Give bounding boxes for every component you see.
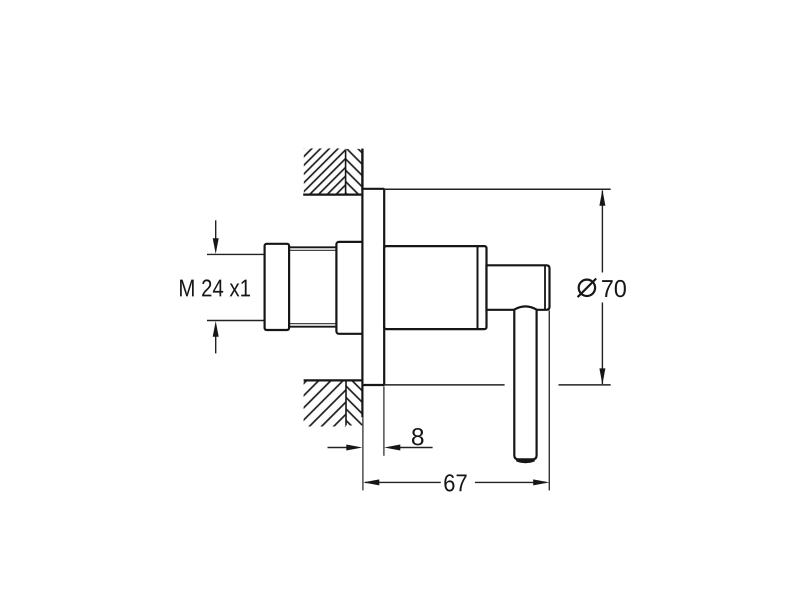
M24 extension line top: [207, 253, 265, 255]
67 dim line: [365, 481, 441, 483]
wall hatch top-right strip: [346, 149, 363, 195]
dia70 extension line top: [384, 188, 611, 190]
8 dim line left part: [328, 447, 351, 449]
dia70 extension line bottom: [384, 384, 504, 386]
M24 dim arrow top: [215, 220, 217, 240]
wall hatch bottom-right strip: [346, 380, 362, 425]
wall hatch bottom-left section: [304, 380, 346, 426]
67 arrow left: [363, 479, 379, 485]
M24 extension line bottom: [207, 320, 265, 322]
body end ring line: [477, 246, 479, 329]
67 arrow right: [533, 479, 549, 485]
dia70 dim line: [601, 191, 603, 273]
label M 24 x1: [180, 279, 250, 296]
8 dim line right part: [398, 447, 433, 449]
hub cap line: [544, 265, 546, 310]
thread crest lines: [289, 249, 336, 251]
label 67: [444, 474, 466, 491]
wall hatch divider top: [345, 150, 347, 195]
M24 dim arrow bottom: [215, 335, 217, 353]
extension line left (for 8 and 67 dims): [362, 417, 364, 490]
label 8: [412, 428, 423, 445]
wall hatch divider bottom: [345, 380, 347, 425]
valve body: [384, 246, 486, 329]
wall hole edge line top: [303, 194, 362, 196]
collar: [336, 242, 367, 334]
lever grip: [514, 306, 536, 459]
dia70 arrow bottom: [599, 368, 605, 384]
handle hub: [487, 265, 550, 310]
thread outer lines: [289, 246, 336, 248]
escutcheon flange: [362, 189, 384, 385]
union nut: [265, 244, 290, 330]
wall surface line lower: [361, 385, 363, 417]
wall hatch top-left section: [304, 148, 346, 194]
lever grip bottom cap: [517, 460, 535, 462]
dia70 arrow top: [599, 190, 605, 206]
label dia 70: [578, 279, 626, 298]
wall surface line upper: [361, 149, 363, 190]
8 dim extension line right: [383, 386, 385, 456]
67 extension line right: [548, 311, 550, 491]
wall hole edge line bottom: [304, 379, 363, 381]
